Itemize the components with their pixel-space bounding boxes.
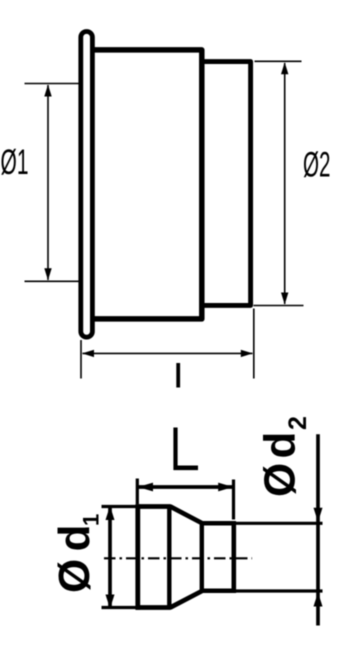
dim Ø1 arrow down: [44, 268, 51, 280]
reducer taper top: [170, 507, 202, 524]
reducer taper bottom: [170, 591, 202, 608]
svg-text:Ø2: Ø2: [303, 146, 331, 185]
dim d2 line: [316, 434, 320, 625]
label l: [176, 363, 180, 388]
dim d1 arrow up: [106, 506, 115, 520]
dim Ø2 ext top: [255, 60, 302, 62]
reducer large top line: [136, 504, 171, 509]
dim L line: [138, 485, 233, 489]
dim d1 line: [108, 508, 112, 608]
dim d2 ext bottom: [236, 589, 323, 592]
dim Ø2 line: [284, 63, 286, 304]
dim Ø1 line: [47, 85, 49, 280]
dim d1 ext bottom: [102, 606, 136, 609]
flange capsule: [81, 32, 93, 338]
dim l ext left: [80, 340, 82, 379]
dim l ext right: [253, 309, 255, 379]
reducer joint line 2: [200, 522, 204, 593]
reducer small bottom line: [200, 589, 236, 594]
label L: [173, 428, 198, 471]
dim Ø1 arrow up: [44, 85, 51, 97]
svg-text:Ø1: Ø1: [1, 143, 29, 182]
dim d2 arrow down: [314, 508, 323, 522]
dim Ø2 arrow up: [281, 62, 288, 74]
dim d2 ext top: [236, 522, 323, 525]
dim l line: [83, 352, 253, 354]
reducer large bottom line: [136, 605, 171, 610]
dim L ext left: [136, 479, 139, 505]
dim L arrow left: [138, 483, 153, 492]
dim Ø2 ext bottom: [254, 305, 304, 307]
dim d1 ext top: [102, 505, 136, 508]
dim L ext right: [232, 480, 235, 520]
dim Ø1 ext bottom: [25, 280, 80, 282]
reducer small top line: [200, 521, 236, 526]
spigot outline: [202, 62, 251, 306]
dim L arrow right: [218, 483, 233, 492]
dim Ø2 arrow down: [281, 293, 288, 305]
dim d2 arrow up: [314, 592, 323, 606]
reducer left edge: [135, 504, 140, 610]
dim Ø1 ext top: [25, 83, 80, 85]
reducer joint line 1: [167, 505, 171, 610]
centerline: [104, 557, 252, 559]
body outline with joint line: [92, 50, 202, 319]
dim d1 arrow down: [106, 595, 115, 609]
dim l arrow right: [241, 350, 253, 357]
reducer right edge: [232, 521, 237, 593]
dim l arrow left: [82, 350, 94, 357]
